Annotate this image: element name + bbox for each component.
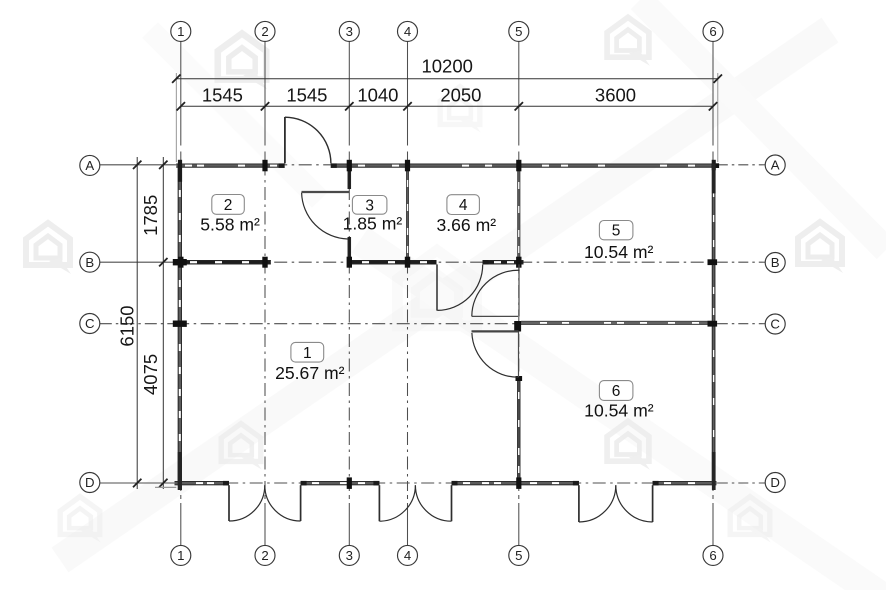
svg-text:C: C [85,316,95,331]
svg-text:4: 4 [404,24,411,39]
svg-text:10200: 10200 [421,56,472,77]
svg-text:1545: 1545 [286,84,327,105]
svg-text:3: 3 [346,548,353,563]
svg-text:6: 6 [709,24,716,39]
svg-text:2: 2 [224,197,233,214]
svg-text:1: 1 [177,24,184,39]
svg-text:1: 1 [303,345,312,362]
svg-text:A: A [771,158,780,173]
svg-text:2050: 2050 [440,84,481,105]
svg-text:6: 6 [709,548,716,563]
svg-text:C: C [770,317,780,332]
svg-text:2: 2 [261,24,268,39]
svg-text:1040: 1040 [357,84,398,105]
svg-text:A: A [85,158,94,173]
svg-text:3: 3 [346,24,353,39]
svg-text:5: 5 [515,548,522,563]
svg-text:6: 6 [612,383,621,400]
svg-text:1545: 1545 [202,84,243,105]
svg-text:5.58 m²: 5.58 m² [200,215,260,235]
svg-text:1: 1 [177,548,184,563]
svg-text:D: D [85,475,95,490]
svg-text:B: B [85,255,94,270]
svg-text:3.66 m²: 3.66 m² [436,215,496,235]
svg-text:10.54 m²: 10.54 m² [584,400,654,420]
svg-text:4075: 4075 [140,354,161,395]
svg-text:1785: 1785 [140,195,161,236]
svg-text:5: 5 [515,24,522,39]
svg-text:3: 3 [365,197,374,214]
svg-text:D: D [770,475,780,490]
svg-text:1.85 m²: 1.85 m² [343,213,403,233]
svg-text:4: 4 [459,197,468,214]
svg-text:5: 5 [612,223,621,240]
svg-text:B: B [771,255,780,270]
svg-text:3600: 3600 [595,84,636,105]
svg-text:25.67 m²: 25.67 m² [275,363,345,383]
svg-text:4: 4 [404,548,411,563]
svg-text:2: 2 [261,548,268,563]
svg-text:6150: 6150 [117,305,138,346]
svg-text:10.54 m²: 10.54 m² [584,242,654,262]
